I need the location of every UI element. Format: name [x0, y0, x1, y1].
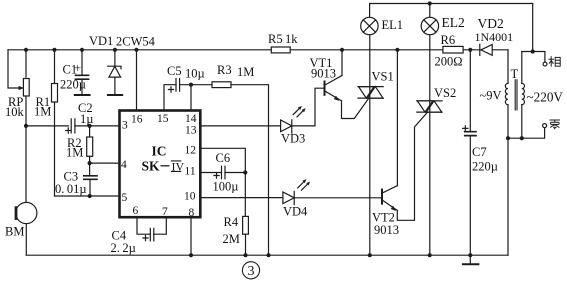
node 220V winding bottom junction — [520, 136, 524, 140]
svg-text:9013: 9013 — [374, 223, 399, 237]
resistor R3 — [212, 82, 231, 88]
svg-text:100µ: 100µ — [213, 180, 239, 194]
resistor R4 — [243, 173, 249, 256]
resistor R1 — [52, 50, 58, 196]
svg-text:7: 7 — [162, 206, 168, 218]
wire +9V rail segment A — [8, 49, 271, 51]
svg-text:VD3: VD3 — [281, 132, 305, 146]
op-amp U1 IC SK-IV box — [120, 111, 201, 218]
label R5 1k — [268, 32, 298, 46]
plus sign of C2 — [66, 128, 71, 133]
capacitor C1 — [75, 50, 90, 94]
label ~9V — [480, 89, 502, 103]
node VD1 top junction — [113, 48, 117, 52]
wire R3 right to ground drop — [231, 85, 269, 256]
zener diode VD1 — [108, 50, 121, 94]
svg-text:C7: C7 — [472, 145, 487, 159]
wire VD3 cathode to VT1 base — [292, 88, 324, 126]
label VD1 2CW54 — [89, 34, 156, 49]
resistor R5 — [271, 47, 290, 53]
node C7 ground junction — [468, 253, 472, 257]
svg-text:10µ: 10µ — [185, 67, 205, 81]
wire pin3 net left segment — [26, 125, 68, 127]
svg-text:EL2: EL2 — [442, 15, 465, 30]
label VT2 9013 — [372, 211, 399, 238]
svg-text:C5: C5 — [167, 64, 182, 78]
svg-text:R6: R6 — [441, 33, 456, 47]
label T — [511, 67, 519, 81]
light arrows of VD4 — [298, 179, 310, 190]
wire pin 8 to ground rail — [190, 217, 192, 255]
svg-text:T: T — [511, 67, 519, 81]
svg-text:12: 12 — [185, 145, 197, 157]
pin number 7 — [162, 206, 168, 218]
svg-text:C6: C6 — [216, 151, 231, 165]
potentiometer RP — [23, 50, 29, 203]
node VS1 ground junction — [368, 253, 372, 257]
plus sign of C4 — [143, 235, 148, 240]
terminal 零 neutral — [543, 124, 547, 128]
wire VT1 emitter to VS1 gate — [342, 98, 369, 118]
pin number 13 — [185, 125, 197, 137]
node C5/R3/pin14 junction — [189, 83, 193, 87]
label VS1 — [372, 70, 394, 84]
wire 220V winding bottom lead — [521, 105, 523, 139]
node R2 top junction — [88, 124, 92, 128]
capacitor C2 — [71, 119, 75, 133]
svg-text:4: 4 — [121, 159, 127, 171]
svg-text:IC: IC — [151, 144, 166, 159]
svg-text:1N4001: 1N4001 — [475, 30, 514, 44]
wire phase drop from lamp rail — [532, 4, 534, 52]
svg-text:220µ: 220µ — [472, 160, 498, 174]
wire 9V winding top lead — [507, 50, 509, 84]
node pin4 junction — [88, 161, 92, 165]
svg-text:+: + — [74, 61, 81, 75]
wire 220V winding top lead — [521, 52, 523, 84]
label BM — [5, 225, 24, 239]
label C2 1u — [78, 101, 93, 126]
svg-text:0. 01µ: 0. 01µ — [55, 182, 87, 196]
wire VT2 collector riser — [396, 50, 398, 186]
node VS2 ground junction — [428, 253, 432, 257]
wire pin3 net right segment — [75, 125, 120, 127]
light arrows of VD3 — [293, 106, 305, 117]
svg-text:9013: 9013 — [311, 67, 336, 81]
resistor R6 — [443, 46, 463, 53]
label C5 10u — [167, 64, 205, 81]
wire pin 10 to VD4 — [200, 197, 283, 199]
node pin16 rail junction — [134, 48, 138, 52]
wire common bottom junction row to neutral terminal — [508, 128, 545, 139]
node R1 top junction — [52, 48, 56, 52]
svg-text:VD4: VD4 — [283, 205, 308, 219]
label R4 2M — [223, 215, 240, 246]
svg-text:2CW54: 2CW54 — [116, 35, 156, 49]
wire pin 12 to C6 node — [200, 148, 245, 172]
wire pin 6 to C4 — [137, 217, 150, 234]
wire phase terminal to 220V winding top — [522, 52, 545, 63]
ground symbol at bottom right — [463, 255, 479, 264]
capacitor C7 — [464, 50, 477, 255]
node VT1 collector rail junction — [340, 48, 344, 52]
label EL1 — [382, 18, 404, 32]
ground bar under VD1 — [108, 94, 122, 96]
transformer T 9V winding — [505, 83, 508, 104]
triac VS1 — [358, 87, 383, 99]
diode VD2 — [480, 44, 492, 55]
wire pin 14 riser — [190, 85, 192, 111]
wire EL1 top lead — [369, 4, 371, 18]
pin number 8 — [189, 207, 195, 219]
pin number 12 — [185, 145, 197, 157]
ground bar under C1 — [75, 94, 90, 96]
svg-text:220µ: 220µ — [60, 78, 86, 92]
wire VT2 emitter to VS2 gate — [397, 112, 427, 220]
LED VD4 — [283, 191, 294, 204]
svg-text:1k: 1k — [285, 32, 298, 46]
label VD2 1N4001 — [475, 16, 514, 44]
pin number 11 — [185, 166, 196, 178]
svg-text:R4: R4 — [224, 215, 239, 229]
lamp EL1 — [361, 17, 378, 34]
label VT1 9013 — [310, 56, 337, 81]
wire EL1 bottom / VS1 main column — [369, 35, 371, 256]
svg-text:5: 5 — [122, 192, 128, 204]
transistor VT2 — [382, 186, 397, 211]
circled 3 figure number — [242, 262, 259, 280]
label VD4 — [283, 205, 308, 219]
transistor VT1 — [325, 76, 343, 101]
svg-text:11: 11 — [185, 166, 196, 178]
label C7 220u — [472, 145, 498, 174]
svg-text:6: 6 — [133, 205, 139, 217]
wire pin5 net (R1 bottom to IC pin 5) — [55, 195, 120, 197]
pin number 4 — [121, 159, 127, 171]
wire pin 11 to C6 — [200, 172, 221, 174]
svg-text:SK: SK — [142, 158, 161, 173]
svg-text:~220V: ~220V — [527, 90, 564, 105]
label C3 0.01u — [55, 170, 87, 197]
wire pin 16 to +9V rail — [136, 50, 138, 111]
wire bottom rail riser to transformer — [507, 138, 509, 255]
pin number 16 — [131, 114, 143, 126]
capacitor C5 — [176, 79, 212, 92]
node 9V winding bottom junction — [506, 136, 510, 140]
wire VD4 cathode to VT2 base — [294, 197, 381, 199]
svg-text:~9V: ~9V — [480, 89, 502, 103]
pin number 14 — [185, 113, 197, 125]
svg-text:EL1: EL1 — [382, 18, 404, 32]
label 零 neutral glyph — [550, 120, 560, 129]
plus sign of C7 — [463, 126, 468, 131]
microphone BM — [15, 202, 37, 255]
node C3 bottom junction — [88, 194, 92, 198]
node phase drop junction — [531, 49, 535, 53]
label C4 2.2u — [111, 229, 136, 256]
node R4 ground junction — [243, 253, 247, 257]
node EL2 top junction — [428, 1, 432, 5]
svg-text:VS1: VS1 — [372, 70, 394, 84]
label IC — [151, 144, 166, 159]
wire +9V rail segment D — [492, 49, 508, 51]
label R1 1M — [34, 95, 51, 119]
label C1 220u — [60, 61, 86, 92]
label ~220V — [527, 90, 564, 105]
plus sign of C5 — [168, 87, 173, 92]
label 相 phase glyph — [548, 56, 560, 66]
wire left rail drop to RP wiper — [8, 50, 20, 88]
label R3 1M — [217, 63, 254, 79]
label EL2 — [442, 15, 465, 30]
capacitor C3 — [83, 163, 98, 196]
svg-text:VD1: VD1 — [89, 34, 113, 48]
terminal 相 phase — [543, 62, 547, 66]
wire +9V rail segment B — [290, 49, 443, 51]
svg-text:10: 10 — [184, 191, 196, 203]
svg-text:15: 15 — [157, 113, 169, 125]
wire pin4 net — [90, 162, 120, 164]
transformer T core — [515, 79, 517, 110]
svg-text:VS2: VS2 — [434, 86, 456, 100]
capacitor C4 — [150, 228, 154, 241]
svg-text:3: 3 — [248, 264, 255, 279]
label C6 100u — [213, 151, 239, 194]
node R3 ground junction — [266, 253, 270, 257]
lamp EL2 — [421, 17, 438, 34]
label R6 200ohm — [435, 33, 463, 69]
svg-text:R5: R5 — [268, 32, 283, 46]
wire pin 15 to C5 — [164, 85, 176, 111]
pin number 6 — [133, 205, 139, 217]
node pin8 ground junction — [189, 253, 193, 257]
node RP top junction — [24, 48, 28, 52]
svg-text:200Ω: 200Ω — [435, 55, 463, 69]
svg-text:8: 8 — [189, 207, 195, 219]
pin number 15 — [157, 113, 169, 125]
svg-text:R3: R3 — [217, 63, 232, 77]
capacitor C6 — [222, 166, 246, 179]
svg-text:10k: 10k — [5, 105, 25, 119]
wire +9V rail segment C — [463, 49, 480, 51]
label R2 1M — [66, 136, 83, 160]
svg-text:1µ: 1µ — [80, 112, 93, 126]
svg-text:2. 2µ: 2. 2µ — [111, 241, 136, 255]
node VT2 collector rail junction — [395, 48, 399, 52]
triac VS2 — [417, 101, 442, 112]
label VS2 — [434, 86, 456, 100]
node C7 top junction — [468, 48, 472, 52]
label RP 10k — [5, 95, 25, 119]
node C1 top junction — [80, 48, 84, 52]
svg-text:3: 3 — [122, 120, 128, 132]
svg-text:VD2: VD2 — [478, 16, 504, 31]
svg-text:BM: BM — [5, 225, 24, 239]
node C2 branch junction on RP column — [24, 124, 28, 128]
svg-text:2M: 2M — [223, 232, 240, 246]
wire pin 13 to VD3 — [200, 125, 280, 127]
label SK-IV — [142, 158, 185, 173]
wire VT1 collector riser — [341, 50, 343, 76]
wire EL2 top lead — [429, 4, 431, 18]
pin number 3 — [122, 120, 128, 132]
pin number 5 — [122, 192, 128, 204]
pin number 10 — [184, 191, 196, 203]
svg-text:1M: 1M — [237, 65, 254, 79]
LED VD3 — [281, 120, 292, 133]
wire top lamp rail — [370, 3, 533, 5]
svg-text:16: 16 — [131, 114, 143, 126]
RP wiper arrowhead — [19, 86, 24, 90]
plus sign of C6 — [214, 173, 219, 178]
svg-text:13: 13 — [185, 125, 197, 137]
svg-text:1M: 1M — [34, 105, 51, 119]
wire 9V winding bottom to common junction — [507, 105, 509, 139]
node C6/R4 junction — [243, 170, 247, 174]
wire bottom rail — [26, 254, 508, 256]
label VD3 — [281, 132, 305, 146]
transformer T 220V winding — [522, 83, 525, 104]
wire C4 to pin 7 — [154, 217, 167, 234]
resistor R2 — [87, 126, 93, 163]
svg-text:14: 14 — [185, 113, 197, 125]
wire EL2 bottom / VS2 main column — [429, 35, 431, 256]
svg-text:1M: 1M — [66, 146, 83, 160]
